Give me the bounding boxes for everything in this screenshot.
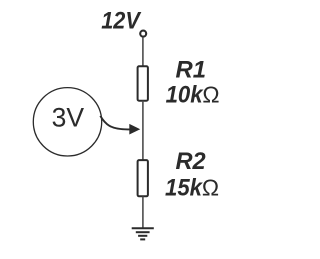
ground bar 2 <box>136 231 150 233</box>
wire R2 to ground <box>142 197 144 229</box>
arrow from 3V circle to node A <box>100 116 130 130</box>
svg-text:10k: 10k <box>166 82 205 109</box>
svg-text:12V: 12V <box>101 8 141 35</box>
ground symbol <box>132 228 154 239</box>
svg-text:Ω: Ω <box>202 82 219 108</box>
resistor R1 <box>138 66 148 100</box>
wire terminal to R1 <box>142 37 144 66</box>
svg-text:3V: 3V <box>52 102 85 132</box>
ground bar 1 <box>132 227 154 229</box>
svg-text:R1: R1 <box>176 57 207 84</box>
resistor R2 <box>138 160 148 196</box>
annotation circle 3V <box>33 88 101 156</box>
arrowhead at node A <box>129 124 140 135</box>
svg-text:R2: R2 <box>176 148 207 175</box>
svg-text:Ω: Ω <box>202 175 219 201</box>
ground bar 3 <box>138 235 147 237</box>
ground bar 4 <box>140 238 145 240</box>
svg-text:15k: 15k <box>165 175 204 202</box>
wire R1 to R2 (node A) <box>142 101 144 160</box>
terminal node 12V <box>140 31 146 37</box>
